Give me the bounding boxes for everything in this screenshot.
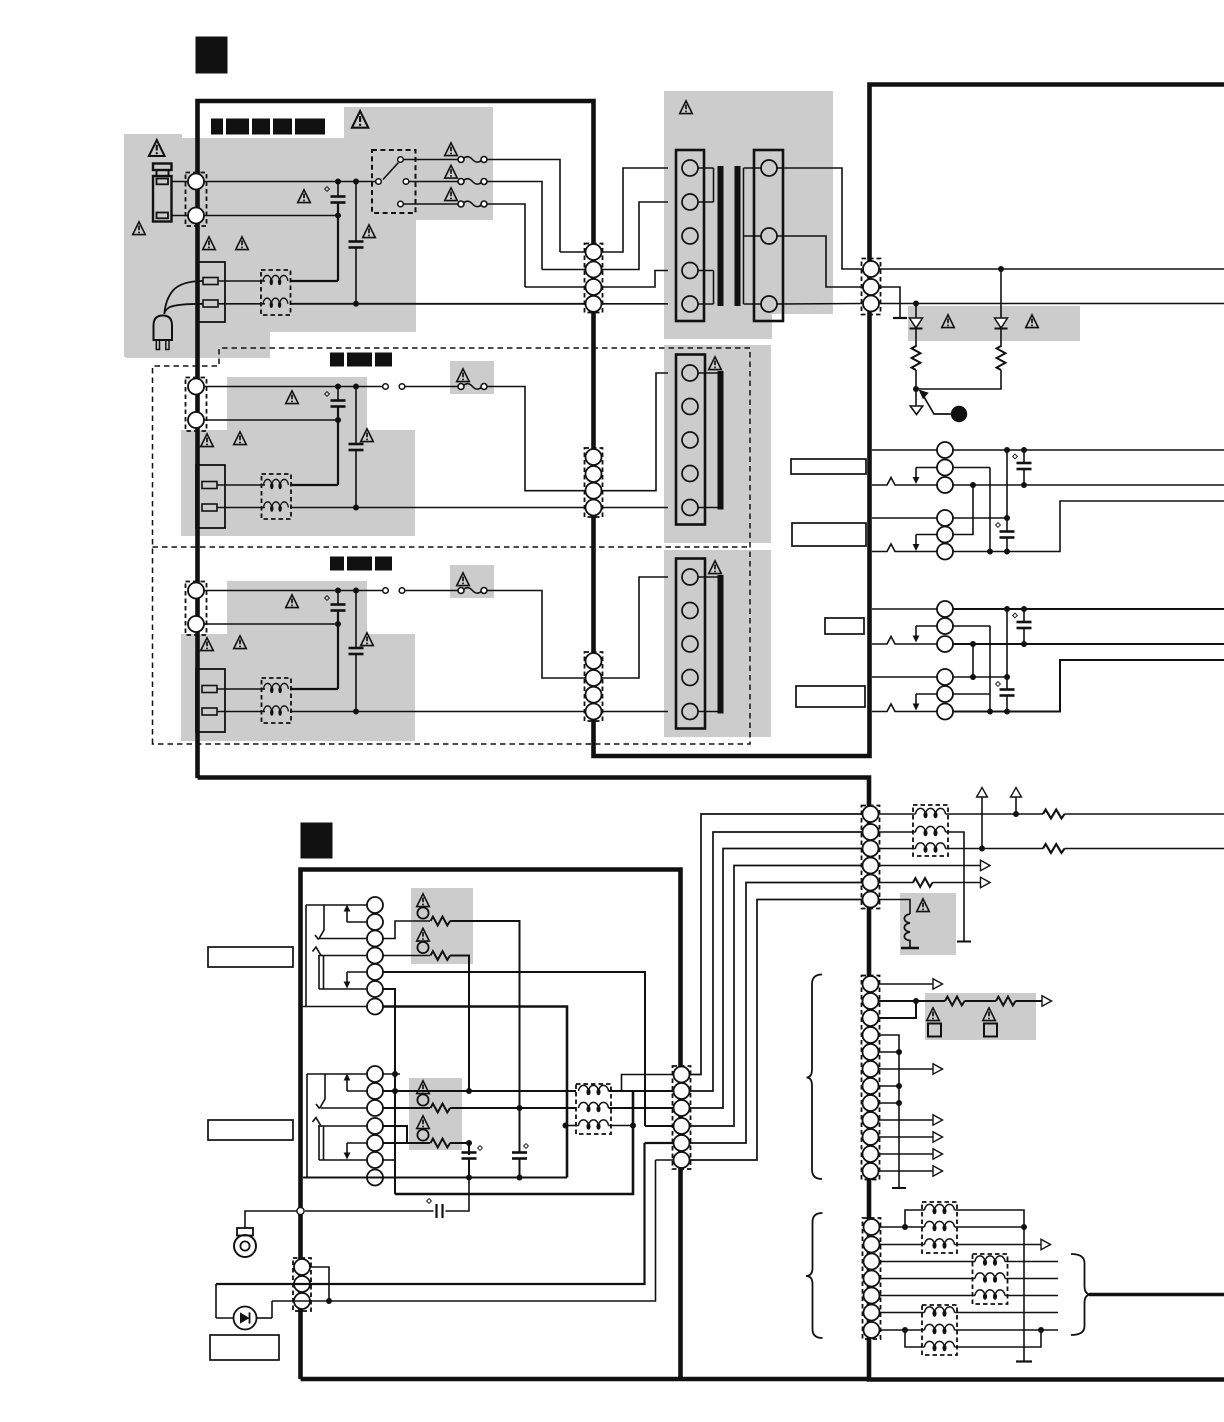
fuse F103 — [458, 201, 487, 207]
connector CN6 — [862, 806, 880, 909]
row1 out + resistor — [946, 813, 1044, 815]
wire cn2-1 to T1 pin1 — [560, 168, 668, 252]
warning triangle (far left) — [133, 222, 146, 235]
jack1 ring rail + tip contact — [315, 905, 324, 940]
resistor R2 — [1000, 329, 1002, 348]
row6 choke — [880, 1312, 925, 1314]
label rect LED — [210, 1335, 279, 1360]
capacitor CP2 — [519, 1108, 521, 1153]
gray area diode band — [908, 306, 1080, 341]
jack sleeve rail — [305, 905, 307, 1007]
row1 arrow — [879, 983, 934, 985]
row12 arrow — [879, 1170, 934, 1172]
row3 choke — [880, 1261, 976, 1263]
jack B switch arrow — [915, 535, 917, 545]
border: top AC box staircase — [198, 85, 1224, 779]
T1 secondary stubs — [744, 168, 762, 304]
warning triangle T1 — [680, 101, 693, 114]
jack3 wires c1 — [307, 1073, 367, 1075]
capacitor CA — [1004, 447, 1010, 453]
AC plug — [154, 316, 173, 341]
jack1 c3 row — [320, 938, 367, 940]
jack2 c6 row — [319, 988, 367, 990]
supply arrow 1 — [977, 788, 988, 798]
wire AC secondary line A — [879, 268, 1224, 270]
coupling capacitor (mic line) — [305, 1210, 434, 1212]
wire cn2-2 to T1 pin2 — [542, 202, 668, 270]
feed-through (no connection) — [297, 1207, 304, 1214]
row8 to bus — [879, 1102, 900, 1104]
capacitor CP1 — [468, 1143, 470, 1155]
T1 primary stubs — [698, 168, 714, 304]
jack C tip contact — [872, 637, 937, 645]
T1 primary winding bar — [718, 166, 724, 306]
gray area transformer T3 — [664, 550, 771, 737]
filter box L9 — [973, 1254, 1008, 1304]
jack D tip contact — [872, 704, 937, 712]
jack A wires — [872, 449, 937, 451]
resistor R1 — [915, 329, 917, 348]
gray area row3 lower — [181, 634, 415, 741]
wire cn2-3 to T1 pin4 — [525, 271, 668, 288]
connector CN2 (4 pins on border) — [585, 244, 603, 313]
connector CN8 — [863, 1218, 881, 1339]
gray area row1 upper band — [344, 107, 493, 139]
wire connector pin2 to T3 pin1 — [602, 577, 669, 678]
row2 to shield ground — [946, 832, 965, 941]
border: outer bottom + right box left/bottom — [198, 778, 1224, 1380]
gray area resistor-squares box — [925, 993, 1036, 1040]
wire pin5 feed — [645, 1142, 674, 1144]
wire fuse to connector pin3 (row2) — [487, 387, 586, 491]
wire bottom AC line to connector — [290, 303, 586, 305]
jack1 wires c1 — [306, 904, 367, 906]
wire pin2 to C1 — [204, 215, 338, 217]
row2 double resistor + arrow — [879, 1000, 946, 1002]
gray area row2 fuse — [450, 361, 494, 394]
jack4 switch arrow down — [346, 1143, 348, 1153]
capacitor CB — [1004, 515, 1010, 521]
diode D1 — [913, 301, 919, 307]
capacitor C1 — [335, 179, 341, 185]
harness to right box — [690, 814, 863, 1075]
common rail — [303, 1177, 567, 1179]
row 3 common — [186, 557, 722, 733]
capacitor CC — [1004, 606, 1010, 612]
fuse holder F1 — [153, 164, 172, 171]
warning triangle choke — [917, 899, 930, 912]
wire T1 sec pin1 to CN3 — [777, 168, 862, 269]
T1 secondary winding bar — [735, 166, 741, 306]
connector CN (3 pin) — [293, 1258, 311, 1311]
wire 3pin-1 jumper — [310, 1267, 329, 1301]
line filter L1 — [261, 270, 291, 315]
border: right box connector spine — [869, 756, 871, 778]
gray area inductor-ground box — [900, 893, 956, 955]
fuse F101 — [458, 157, 487, 163]
wire fuse holder to pins — [171, 181, 188, 183]
capacitor CD — [1004, 674, 1010, 680]
row4 choke — [880, 1278, 976, 1280]
jack sleeve rail — [306, 1074, 308, 1178]
jack2 tip contact — [313, 947, 322, 956]
power cord — [165, 281, 204, 313]
wire pin4 feed — [645, 1125, 674, 1127]
warning triangles + component squares — [927, 1008, 940, 1021]
label rect phones A — [208, 947, 293, 967]
supply arrow 2 — [1011, 788, 1022, 798]
gray area lamp box group2 — [409, 1078, 462, 1150]
border: bottom-left box — [301, 870, 681, 1380]
row7 dual choke — [880, 1329, 925, 1331]
harness thick line — [1089, 1293, 1224, 1296]
connector CN3 — [862, 259, 881, 315]
connector pins group1 — [367, 897, 383, 913]
thick link down to CN rows — [395, 1091, 633, 1194]
gray area transformer T1 — [664, 91, 833, 339]
jack2 rails — [319, 956, 324, 990]
row3 link to row2 — [879, 1001, 917, 1018]
LED D301 — [234, 1307, 257, 1330]
dashed box rows 2-3 — [153, 348, 751, 744]
row9 arrow — [879, 1119, 934, 1121]
jack A tip contact — [872, 478, 937, 486]
wire AC secondary line B — [879, 303, 1224, 305]
jack A pins — [937, 442, 953, 458]
T1 secondary pin box — [754, 150, 783, 321]
gray area row2 lower — [181, 430, 415, 536]
row2 choke + arrow — [880, 1244, 925, 1246]
row11 arrow — [879, 1153, 934, 1155]
jack common row — [301, 1006, 367, 1008]
choke L7 to ground — [879, 900, 911, 915]
wire cn2-4 to T1 pin5 — [602, 303, 669, 305]
wire c1 stub — [383, 1073, 400, 1075]
jack D wires — [872, 676, 937, 678]
jack B pins — [937, 510, 953, 526]
jack D pins — [937, 669, 953, 685]
gray area row2 upper — [227, 377, 367, 430]
AC inlet terminal box — [198, 262, 225, 322]
row6 arrow — [879, 1068, 934, 1070]
jack3 ring rail + tip contact — [316, 1074, 325, 1109]
row5 to bus — [879, 1051, 900, 1053]
jack C wires — [872, 608, 937, 610]
row4 ground bus — [879, 1035, 900, 1187]
fuse F102 — [458, 179, 487, 185]
filter box L6 — [913, 805, 948, 856]
gray area row1 main band — [182, 138, 493, 220]
filter box L8 — [922, 1202, 957, 1253]
row3 out + resistor — [946, 848, 1044, 850]
indicator pointer to pilot lamp — [924, 396, 951, 414]
wire pin6 feed — [656, 1159, 674, 1161]
row7 to bus — [879, 1085, 900, 1087]
gray area lamp box group1 — [411, 888, 473, 964]
arrow to next sheet — [915, 389, 917, 406]
jack B wires — [872, 517, 937, 519]
label rect jack A — [791, 459, 866, 474]
voltage selector switch S1 — [372, 150, 416, 213]
row5 resistor + arrow — [879, 882, 914, 884]
warning triangle pair below pins — [203, 237, 216, 250]
jack1 switch arrow up — [346, 911, 348, 922]
brace to harness — [1071, 1254, 1091, 1335]
wire C-c1 to D-c1 — [1006, 609, 1008, 677]
row5 choke — [880, 1295, 976, 1297]
wire pin1 to switch — [204, 181, 376, 183]
filter box L10 — [922, 1305, 957, 1355]
gray area row3 fuse — [450, 565, 494, 598]
jack4 rails — [319, 1126, 324, 1160]
row10 arrow — [879, 1136, 934, 1138]
wire 3pin-3 long row — [272, 1160, 656, 1301]
gray area transformer T2 — [664, 345, 771, 543]
gray area row1 lower band — [182, 220, 416, 332]
ground lug — [237, 1228, 253, 1236]
filter box L5 — [576, 1084, 611, 1134]
warning triangles above fuses — [445, 143, 458, 156]
border: bottom line of bottom-left box — [301, 1377, 870, 1382]
wire C-c3 out — [953, 643, 1224, 645]
T1 primary pins — [682, 160, 698, 176]
jack C switch arrow — [915, 626, 917, 636]
lamp LP3 + resistor — [383, 1107, 430, 1109]
wire c2 row to filter — [383, 1090, 576, 1092]
jack D switch arrow — [915, 694, 917, 704]
row1 dual choke to ground — [880, 1226, 925, 1228]
wire filter out rows — [609, 1090, 674, 1092]
diode D2 — [998, 266, 1004, 272]
brace group CN7 — [807, 975, 823, 1180]
ground lug wire — [245, 1211, 297, 1228]
label rect phones B — [208, 1120, 293, 1140]
label rect jack B — [792, 523, 866, 546]
wire fuse to connector pin2 (row3) — [487, 591, 586, 679]
row 2 common — [186, 353, 722, 529]
brace group CN8 — [806, 1213, 823, 1338]
wire T1 sec pin5 to CN3 — [777, 303, 862, 306]
ground stub from CN3-2 — [879, 287, 900, 317]
wire C-c2 to D-c3 — [989, 626, 991, 712]
connector CN5 — [673, 1066, 691, 1169]
jack A switch arrow — [915, 468, 917, 478]
jack3 switch arrow up — [346, 1080, 348, 1091]
jog to pin1 — [622, 1075, 674, 1092]
wire A-c2 to B-c3 — [989, 468, 991, 552]
wire B-c3 out — [953, 501, 1224, 552]
connector CN7 — [862, 976, 880, 1180]
wires terminal box to line filter — [218, 280, 265, 282]
gray area AC inlet left column — [124, 134, 182, 357]
warning triangles diode band — [942, 315, 955, 328]
lamp LP1 + resistor — [383, 921, 430, 939]
jack B tip contact — [872, 544, 937, 552]
jack C pins — [937, 601, 953, 617]
T1 secondary pins — [761, 160, 777, 176]
wire A-c3 to B-c2 — [970, 482, 976, 488]
connector CN1 pins — [186, 173, 207, 227]
wire C-c3 to D-c1 — [970, 641, 976, 647]
lamp LP4 + resistor — [383, 1126, 407, 1143]
wire 3pin-2 long row — [216, 1143, 645, 1284]
wire c6 to common vertical — [383, 1159, 395, 1161]
wire c7 common down — [383, 1007, 567, 1178]
warning triangle lamp4 — [417, 1116, 430, 1129]
warning triangle (header) — [352, 111, 368, 128]
warning triangle lamp3 — [417, 1081, 430, 1094]
pilot lamp (filled) — [951, 406, 967, 422]
wire A-c3 out — [953, 484, 1224, 486]
wires switch to fuses — [403, 159, 458, 161]
jack4 tip contact — [313, 1118, 322, 1127]
inductor row 3 with taps — [563, 1123, 569, 1129]
label rect jack C — [825, 618, 864, 634]
gray area row3 upper — [227, 581, 367, 634]
wire connector pin3 to T2 pin1 — [602, 373, 669, 491]
label blocks (redacted) — [211, 119, 325, 135]
wire T1 sec pin3 to CN3 — [777, 236, 862, 287]
warning triangle near C1 — [298, 190, 311, 203]
section marker square 1 — [196, 37, 227, 73]
lamp LP2 + resistor — [383, 955, 430, 957]
warning triangle near C2 — [363, 225, 376, 238]
wire C1 down to line filter output — [337, 216, 339, 282]
wires fuses to connector — [487, 160, 560, 253]
capacitor C2 — [353, 179, 359, 185]
jack2 switch arrow down — [346, 972, 348, 982]
T1 primary pin box — [676, 150, 704, 321]
wire A-c1 to B-c1 — [1006, 450, 1008, 518]
section marker square 2 — [301, 823, 332, 858]
warning triangle lamp2 — [417, 928, 430, 941]
row4 arrow out — [879, 865, 981, 867]
wire c6 down to group2 — [383, 989, 395, 1194]
wire c5 to CN pin4 feed — [383, 972, 645, 1126]
wire D-c3 out — [953, 660, 1224, 712]
connector pins group2 — [367, 1066, 383, 1082]
warning triangle (top-left) — [149, 140, 165, 156]
gray area row1 plug strip — [126, 332, 270, 358]
T1 secondary vertical — [743, 168, 745, 304]
label rect jack D — [796, 686, 865, 707]
warning triangle lamp1 — [417, 894, 430, 907]
